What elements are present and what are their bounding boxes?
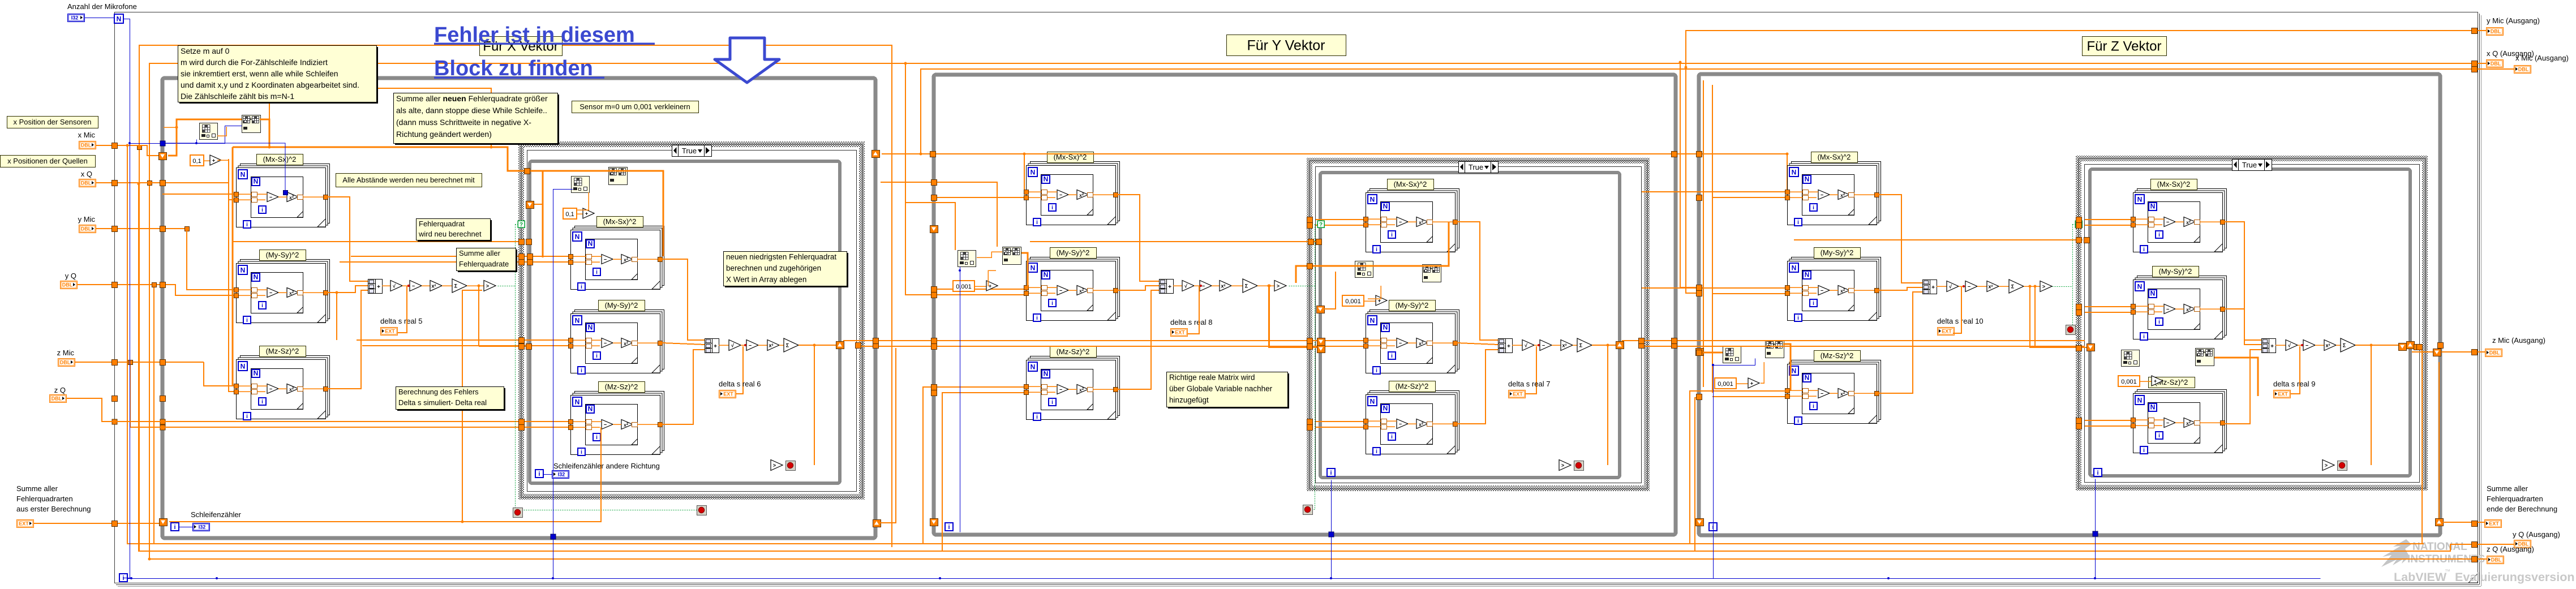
X plus-constant output wire — [217, 160, 229, 161]
svg-text:x Mic: x Mic — [78, 131, 96, 139]
svg-text:i: i — [1036, 315, 1038, 321]
Y icon wiring — [977, 252, 1002, 257]
svg-text:(My-Sy)^2: (My-Sy)^2 — [605, 301, 638, 309]
svg-text:i: i — [1036, 220, 1038, 226]
array icon 2 X outer — [242, 115, 261, 133]
outer for loop dog ear — [2468, 574, 2478, 583]
feeder wires Z — [1703, 80, 1704, 387]
question box Z — [2075, 221, 2082, 227]
svg-text:i: i — [1376, 247, 1377, 253]
question box Y — [1317, 221, 1324, 227]
svg-text:I32: I32 — [71, 15, 79, 21]
array icon 2 X case — [609, 167, 628, 185]
svg-text:DBL: DBL — [2518, 67, 2529, 72]
stop button Z loop — [2066, 325, 2076, 335]
formula block X outer 3 — [241, 356, 330, 415]
blue tunnels bottom edges — [551, 534, 556, 539]
svg-text:x Mic (Ausgang): x Mic (Ausgang) — [2515, 54, 2569, 62]
array icon 2 Z outer — [1766, 341, 1784, 358]
svg-text:(dann muss Schrittweite in neg: (dann muss Schrittweite in negative X- — [396, 118, 531, 127]
svg-text:N: N — [2137, 196, 2143, 204]
svg-text:N: N — [575, 233, 580, 241]
svg-text:N: N — [588, 324, 593, 332]
svg-text:i: i — [2143, 334, 2145, 340]
svg-text:sie inkremtiert erst, wenn all: sie inkremtiert erst, wenn alle while Sc… — [181, 69, 338, 78]
i terminal Z loop — [1709, 523, 1717, 531]
svg-text:Evaluierungsversion: Evaluierungsversion — [2455, 570, 2575, 584]
svg-text:DBL: DBL — [2491, 557, 2502, 563]
while loop Y frame — [934, 75, 1676, 535]
svg-text:+: + — [1168, 284, 1171, 290]
svg-text:+: + — [1931, 285, 1935, 291]
svg-text:N: N — [1792, 367, 1797, 375]
sum branch down into case Z — [2034, 286, 2036, 346]
svg-text:Σ: Σ — [2343, 343, 2346, 349]
i terminal Y loop — [945, 523, 953, 531]
svg-text:N: N — [2150, 203, 2156, 210]
Y thick array wires — [1021, 253, 1028, 288]
svg-text:berechnen und zugehörigen: berechnen und zugehörigen — [726, 264, 821, 273]
tooltip Berechnung des Fehlers — [397, 388, 505, 411]
Z right riser x4283 — [2422, 347, 2423, 544]
tooltip Sensor m=0 — [572, 101, 699, 113]
svg-text:Σ: Σ — [1245, 283, 1248, 289]
svg-text:N: N — [588, 405, 593, 413]
i terminal Z inner loop — [2094, 468, 2102, 476]
X sum into case wire — [479, 346, 527, 347]
svg-text:i: i — [1391, 232, 1393, 238]
svg-text:?: ? — [520, 222, 523, 228]
numeric constant Y outer — [953, 281, 974, 291]
svg-text:Richtung geändert werden): Richtung geändert werden) — [396, 130, 492, 139]
svg-text:0,1: 0,1 — [192, 158, 201, 165]
svg-text:−: − — [1059, 192, 1062, 198]
svg-text:i: i — [1391, 353, 1393, 359]
i terminal X inner loop — [535, 470, 543, 478]
svg-text:delta s real 7: delta s real 7 — [1508, 380, 1550, 388]
Y case cluster wires — [1368, 286, 1381, 299]
svg-text:delta s real 6: delta s real 6 — [719, 380, 761, 388]
svg-text:N: N — [1383, 203, 1388, 210]
svg-text:−: − — [1821, 288, 1823, 294]
svg-text:i: i — [1051, 300, 1053, 307]
svg-text:™: ™ — [2445, 569, 2450, 575]
Y chain to delta EXT — [1188, 286, 1199, 334]
blue i bus — [127, 578, 2321, 579]
blue N wire down — [124, 19, 130, 579]
svg-text:wird neu berechnet: wird neu berechnet — [418, 230, 482, 238]
svg-text:N: N — [1805, 374, 1810, 382]
svg-text:Summe aller: Summe aller — [2487, 484, 2528, 493]
svg-text:I32: I32 — [199, 524, 206, 530]
svg-text:Schleifenzähler andere Richtun: Schleifenzähler andere Richtung — [553, 462, 660, 470]
svg-text:m wird durch die For-Zählschle: m wird durch die For-Zählschleife Indizi… — [181, 58, 328, 67]
svg-text:N: N — [241, 171, 246, 179]
svg-text:y Q: y Q — [65, 272, 76, 280]
numeric constant X case — [563, 208, 577, 219]
svg-text:Σ: Σ — [2011, 284, 2015, 290]
svg-text:DBL: DBL — [2491, 61, 2501, 67]
svg-text:i: i — [581, 368, 582, 374]
annotation blue arrow — [715, 38, 779, 83]
Y shift registers — [930, 226, 938, 233]
svg-text:√: √ — [731, 343, 734, 349]
operator chain Y case — [1499, 339, 1513, 353]
svg-text:N: N — [1383, 324, 1388, 332]
svg-text:EXT: EXT — [723, 392, 733, 397]
svg-text:delta s real 10: delta s real 10 — [1937, 317, 1983, 325]
svg-text:y Mic (Ausgang): y Mic (Ausgang) — [2487, 16, 2540, 25]
svg-text:EXT: EXT — [19, 521, 29, 527]
svg-text:√: √ — [1184, 283, 1187, 289]
X long wire y427 — [233, 241, 521, 242]
array icon 1 Z outer — [1723, 347, 1741, 363]
true tab X — [672, 145, 712, 157]
svg-text:N: N — [254, 369, 259, 377]
Z icon blue wires — [1714, 366, 1725, 579]
X shift registers — [159, 153, 167, 160]
case delta EXT connector Y — [1525, 346, 1536, 394]
svg-text:i: i — [1036, 414, 1038, 420]
svg-text:−: − — [269, 386, 272, 392]
svg-text:−: − — [412, 283, 415, 289]
Y case array in wire y427 — [1030, 241, 1319, 242]
svg-text:Anzahl der Mikrofone: Anzahl der Mikrofone — [67, 2, 137, 11]
svg-text:N: N — [1792, 264, 1797, 272]
svg-text:(Mx-Sx)^2: (Mx-Sx)^2 — [603, 217, 637, 226]
X case inner cluster wires — [577, 192, 589, 210]
svg-text:−: − — [2166, 220, 2169, 225]
svg-text:x²: x² — [2325, 343, 2330, 349]
svg-text:EXT: EXT — [1175, 330, 1185, 336]
svg-text:N: N — [2150, 290, 2156, 298]
section label Fuer Z Vektor — [2083, 37, 2167, 56]
svg-text:i: i — [2158, 232, 2160, 238]
svg-text:i: i — [1797, 220, 1799, 226]
formula block Y outer 2 — [1031, 257, 1120, 317]
svg-text:+: + — [1507, 343, 1510, 350]
X case thick array wires — [543, 171, 663, 256]
svg-text:N: N — [575, 398, 580, 406]
svg-text:(Mx-Sx)^2: (Mx-Sx)^2 — [1394, 180, 1427, 188]
svg-text:−: − — [604, 257, 607, 263]
svg-text:−: − — [604, 422, 607, 428]
X case in level 601 riser — [336, 293, 337, 340]
case delta EXT connector Z — [2290, 346, 2300, 394]
svg-text:(Mz-Sz)^2: (Mz-Sz)^2 — [266, 347, 299, 355]
svg-text:N: N — [1383, 405, 1388, 412]
wire riser x1600 — [905, 63, 934, 295]
svg-text:>: > — [2042, 284, 2045, 290]
svg-text:(My-Sy)^2: (My-Sy)^2 — [266, 251, 299, 259]
inner while loop Z frame — [2090, 169, 2410, 476]
svg-text:x Q: x Q — [81, 170, 92, 178]
true tab Y — [1459, 162, 1499, 173]
svg-text:x Positionen der Quellen: x Positionen der Quellen — [7, 157, 88, 165]
svg-text:0,001: 0,001 — [2121, 379, 2137, 385]
svg-text:(Mx-Sx)^2: (Mx-Sx)^2 — [1818, 153, 1851, 161]
inner while loop X frame — [530, 161, 840, 483]
X case blue wire down to I32 — [553, 190, 573, 537]
svg-text:i: i — [1376, 449, 1377, 455]
svg-text:Summe aller: Summe aller — [459, 249, 501, 257]
svg-text:x²: x² — [1988, 284, 1993, 290]
wire top W2 y112 — [149, 63, 2486, 183]
case chain out to shift register X — [798, 345, 842, 346]
svg-text:Σ: Σ — [1579, 343, 1583, 349]
svg-text:i: i — [1051, 399, 1053, 406]
case chain out to shift register Y — [1592, 345, 1621, 346]
inner while loop Y frame — [1320, 173, 1620, 478]
svg-text:?: ? — [1319, 222, 1323, 228]
svg-text:−: − — [2305, 343, 2308, 349]
svg-text:EXT: EXT — [2278, 392, 2288, 397]
svg-text:i: i — [246, 317, 248, 324]
svg-text:−: − — [1821, 192, 1823, 198]
svg-text:I32: I32 — [558, 472, 565, 478]
Y outer block outputs to chain — [1118, 195, 1159, 281]
formula block X case 1 — [575, 226, 664, 286]
label x Position der Sensoren — [7, 117, 98, 128]
svg-text:>: > — [1561, 463, 1564, 468]
boolean wire Y — [1289, 286, 1315, 287]
array icon 1 Y case — [1355, 261, 1373, 278]
svg-text:True: True — [2242, 161, 2257, 169]
feeder wires X — [228, 159, 229, 392]
svg-text:(My-Sy)^2: (My-Sy)^2 — [1821, 248, 1854, 257]
svg-text:√: √ — [1949, 284, 1952, 290]
svg-text:DBL: DBL — [62, 282, 73, 288]
operator chain Y outer — [1160, 280, 1174, 294]
formula block Z case 1 — [2137, 189, 2227, 248]
array icon 2 Z case — [2196, 349, 2214, 366]
svg-text:i: i — [1797, 418, 1799, 424]
svg-text:z Mic (Ausgang): z Mic (Ausgang) — [2492, 336, 2545, 345]
svg-text:über Globale Variable nachher: über Globale Variable nachher — [1169, 385, 1273, 393]
tunnels — [112, 143, 118, 149]
formula block Z case 3 — [2137, 390, 2227, 449]
svg-text:Berechnung des Fehlers: Berechnung des Fehlers — [398, 388, 479, 396]
svg-text:−: − — [269, 290, 272, 296]
X thick array wire from icon2 — [260, 119, 269, 147]
tooltip Setze m auf 0 — [179, 47, 378, 104]
wire riser x2979 y Mic out — [1686, 31, 2486, 67]
svg-text:x Position der Sensoren: x Position der Sensoren — [13, 118, 91, 126]
sum branch down into case X — [478, 286, 479, 346]
svg-text:i: i — [2097, 470, 2098, 476]
labels X case formula blocks — [597, 217, 643, 227]
svg-text:Delta s simuliert- Delta real: Delta s simuliert- Delta real — [398, 398, 487, 407]
svg-text:als alte, dann stoppe diese Wh: als alte, dann stoppe diese While Schlei… — [396, 106, 547, 115]
svg-text:True: True — [1469, 163, 1483, 171]
X icon1 to icon2 wire — [217, 127, 226, 136]
svg-text:i: i — [1376, 368, 1377, 374]
svg-text:+: + — [2203, 350, 2206, 355]
svg-text:+: + — [1010, 248, 1013, 253]
question box X — [518, 221, 525, 227]
array icon 2 Y outer — [1003, 247, 1021, 265]
svg-text:EXT: EXT — [1513, 392, 1523, 397]
formula block Y case 2 — [1370, 310, 1459, 369]
svg-text:i: i — [538, 471, 540, 478]
svg-text:y Q (Ausgang): y Q (Ausgang) — [2513, 530, 2560, 539]
svg-text:>: > — [486, 283, 489, 289]
labels Z case formula blocks — [2151, 179, 2197, 190]
svg-text:N: N — [2150, 403, 2156, 411]
sum branch down into case Y — [1269, 286, 1270, 346]
tooltip Summe aller Fehlerquadrate — [458, 250, 517, 272]
svg-text:(Mz-Sz)^2: (Mz-Sz)^2 — [1057, 347, 1090, 356]
X loop extra stop button — [513, 508, 523, 518]
case structure Z frame — [2079, 158, 2425, 488]
svg-text:N: N — [2137, 397, 2143, 405]
i terminal Y inner loop — [1327, 468, 1335, 476]
svg-text:>: > — [2325, 463, 2328, 468]
svg-text:delta s real 9: delta s real 9 — [2273, 380, 2315, 388]
array icon 2 Y case — [1423, 265, 1441, 282]
operator chain X outer — [368, 280, 383, 294]
svg-text:N: N — [1792, 169, 1797, 177]
labels X outer formula blocks — [257, 154, 303, 165]
svg-text:N: N — [1370, 398, 1375, 406]
svg-text:0,1: 0,1 — [565, 211, 574, 218]
formula block Z outer 3 — [1792, 360, 1881, 420]
svg-text:i: i — [2158, 319, 2160, 325]
svg-text:−: − — [269, 195, 272, 200]
label x Positionen der Quellen — [1, 156, 96, 167]
labels Z outer formula blocks — [1811, 152, 1858, 163]
svg-text:und damit x,y und z Koordinate: und damit x,y und z Koordinaten abgearbe… — [181, 80, 359, 89]
svg-text:+: + — [377, 284, 380, 290]
Y icons feed wires — [881, 182, 997, 247]
svg-text:−: − — [1399, 220, 1402, 225]
numeric constant X outer — [190, 155, 204, 166]
svg-text:√: √ — [1525, 343, 1527, 349]
svg-text:+: + — [250, 117, 252, 122]
svg-text:√: √ — [2288, 343, 2291, 349]
svg-text:−: − — [749, 343, 752, 349]
section label Fuer X Vektor — [480, 37, 563, 56]
labels Y case formula blocks — [1388, 179, 1434, 190]
svg-text:−: − — [1399, 422, 1402, 427]
svg-text:(Mz-Sz)^2: (Mz-Sz)^2 — [605, 382, 638, 391]
tooltip neuen niedrigsten Fehlerquadrat — [725, 253, 848, 287]
svg-text:Fehlerquadrate: Fehlerquadrate — [459, 260, 509, 268]
svg-text:−: − — [1202, 283, 1205, 289]
svg-text:Setze m auf 0: Setze m auf 0 — [181, 46, 230, 55]
svg-text:i: i — [1813, 300, 1814, 307]
svg-text:i: i — [261, 303, 263, 309]
svg-text:0,001: 0,001 — [1718, 381, 1733, 388]
array icon 1 Y outer — [958, 251, 976, 267]
Z sum into case wire — [2029, 285, 2032, 288]
true tab Z — [2232, 160, 2272, 171]
svg-text:N: N — [254, 178, 259, 186]
boolean wire X — [498, 286, 516, 287]
comparator Y outer — [1268, 285, 1271, 287]
for loop i terminal — [119, 574, 127, 582]
svg-text:−: − — [2166, 420, 2169, 426]
X shift register wire — [168, 119, 242, 156]
Z outer outputs to chain — [1879, 195, 1922, 283]
case structure X frame — [521, 144, 862, 497]
svg-text:N: N — [241, 363, 246, 371]
svg-text:EXT: EXT — [1942, 329, 1952, 334]
formula block Y case 1 — [1370, 189, 1459, 248]
svg-text:N: N — [117, 15, 122, 23]
Y block3 feed risers from bus — [923, 387, 1024, 544]
svg-text:−: − — [1059, 387, 1062, 393]
svg-text:N: N — [1031, 363, 1036, 371]
svg-text:z Mic: z Mic — [57, 349, 75, 357]
Y case outputs to chain — [1457, 222, 1498, 340]
svg-text:True: True — [682, 147, 697, 155]
labels Y outer formula blocks — [1047, 152, 1094, 163]
svg-text:N: N — [254, 273, 259, 281]
svg-text:i: i — [2158, 433, 2160, 439]
X old sum riser — [169, 427, 601, 522]
svg-text:N: N — [1044, 175, 1049, 183]
formula block X outer 2 — [241, 260, 330, 319]
formula block Z case 2 — [2137, 276, 2227, 336]
array icon 1 X outer — [200, 123, 218, 140]
svg-text:DBL: DBL — [51, 396, 62, 402]
boolean wire Z — [2053, 286, 2073, 287]
svg-text:N: N — [1044, 271, 1049, 279]
blue tunnel for N wire — [160, 141, 165, 146]
svg-text:Fehlerquadrat: Fehlerquadrat — [419, 220, 465, 228]
svg-text:i: i — [1391, 434, 1393, 440]
svg-text:EXT: EXT — [2489, 521, 2499, 527]
svg-text:Σ: Σ — [454, 283, 458, 289]
svg-text:N: N — [588, 240, 593, 248]
svg-text:i: i — [246, 414, 248, 420]
formula block X case 2 — [575, 310, 664, 369]
Y sum into case wire — [1268, 285, 1270, 287]
svg-text:+: + — [714, 343, 717, 350]
array icon 1 X case — [572, 177, 590, 193]
svg-text:(My-Sy)^2: (My-Sy)^2 — [1057, 248, 1090, 257]
svg-text:+: + — [2154, 379, 2157, 384]
Z const to icon wire — [1761, 362, 1764, 383]
svg-text:DBL: DBL — [81, 226, 92, 232]
svg-text:Die Zählschleife zählt bis m=N: Die Zählschleife zählt bis m=N-1 — [181, 92, 294, 101]
svg-text:N: N — [1370, 196, 1375, 204]
X upper array wire y156 — [269, 88, 491, 147]
i terminal X loop — [171, 523, 179, 531]
svg-text:Richtige reale Matrix wird: Richtige reale Matrix wird — [1169, 373, 1255, 382]
svg-text:delta s real 5: delta s real 5 — [380, 317, 422, 325]
Z case out shift registers and z Mic out — [2399, 343, 2407, 351]
while loop X frame — [162, 78, 875, 538]
svg-text:Fehlerquadrarten: Fehlerquadrarten — [2487, 495, 2543, 503]
svg-text:N: N — [241, 266, 246, 274]
svg-text:N: N — [1805, 271, 1810, 279]
svg-text:(Mx-Sx)^2: (Mx-Sx)^2 — [263, 155, 297, 164]
Z shift registers — [1696, 349, 1704, 356]
wire W3 y122 x Mic out — [921, 69, 2514, 154]
svg-text:−: − — [1399, 341, 1402, 346]
svg-text:+: + — [1750, 381, 1753, 386]
svg-text:i: i — [1330, 470, 1332, 476]
formula block Y case 3 — [1370, 391, 1459, 450]
stop in case Y — [1559, 460, 1571, 471]
svg-text:ende der Berechnung: ende der Berechnung — [2487, 505, 2557, 513]
svg-text:(My-Sy)^2: (My-Sy)^2 — [1396, 301, 1429, 309]
svg-text:+: + — [2270, 343, 2274, 350]
svg-text:>: > — [773, 463, 776, 468]
svg-text:0,001: 0,001 — [1345, 298, 1361, 305]
